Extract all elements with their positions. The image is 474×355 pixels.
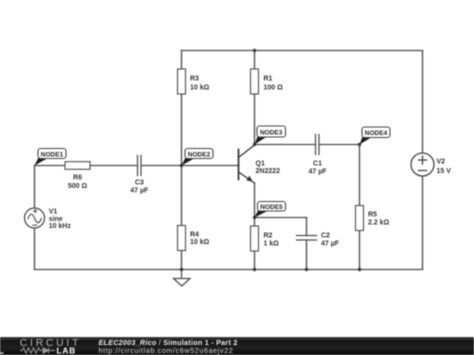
node NODE5 flag pointer: [255, 210, 268, 218]
svg-text:15 V: 15 V: [437, 168, 452, 175]
svg-text:NODE1: NODE1: [41, 152, 64, 159]
wire NODE4 down to R5: [359, 145, 361, 206]
svg-text:V1: V1: [49, 209, 58, 216]
junction dot top rail R1: [253, 49, 256, 52]
resistor R1 value label: [264, 76, 284, 92]
svg-text:500 Ω: 500 Ω: [68, 183, 88, 190]
svg-text:R2: R2: [264, 233, 273, 240]
capacitor C2 plates: [297, 236, 317, 241]
svg-text:1 kΩ: 1 kΩ: [264, 241, 280, 248]
wire R2 top stub: [254, 218, 256, 227]
wire input row: R6 to C3: [90, 165, 138, 167]
svg-text:R1: R1: [264, 76, 273, 83]
svg-text:NODE5: NODE5: [260, 204, 283, 211]
junction dot NODE5: [253, 216, 256, 219]
source V2 label: [437, 159, 452, 176]
source V2: [411, 153, 434, 176]
wire R1 top stub: [254, 51, 256, 70]
svg-text:R5: R5: [368, 212, 377, 219]
resistor R5 body: [356, 206, 364, 231]
svg-text:R4: R4: [190, 232, 199, 239]
footer bar: [0, 337, 474, 355]
resistor R2 body: [251, 226, 259, 251]
junction dot NODE2: [180, 164, 183, 167]
source V1: [25, 208, 45, 228]
node NODE3 box: [257, 126, 286, 137]
wire NODE2 to R4: [181, 166, 183, 226]
resistor R3 value label: [190, 76, 210, 92]
wire input row: C3 to NODE2: [141, 165, 182, 167]
svg-text:C1: C1: [313, 161, 322, 168]
svg-text:47 µF: 47 µF: [321, 241, 340, 248]
wire emitter row: NODE5 to C2: [255, 217, 307, 219]
wire R2 bottom to bottom rail: [254, 251, 256, 270]
resistor R6 value label: [68, 175, 88, 191]
title text: [99, 339, 238, 346]
svg-text:10 kΩ: 10 kΩ: [190, 85, 210, 92]
svg-text:R6: R6: [73, 175, 82, 182]
capacitor C3 value label: [130, 180, 149, 195]
node NODE4 flag pointer: [360, 136, 373, 145]
wire collector row: NODE3 to C1: [255, 144, 316, 146]
svg-text:10 kHz: 10 kHz: [49, 223, 72, 230]
wire R3 bottom to NODE2: [181, 94, 183, 166]
wire C2 bottom to bottom rail: [306, 240, 308, 270]
resistor R2 value label: [264, 233, 280, 248]
wire C2 top stub: [306, 218, 308, 236]
CircuitLab logo: [0, 330, 100, 355]
capacitor C2 value label: [321, 233, 340, 248]
wire V2 branch lower: [422, 176, 424, 270]
svg-text:NODE3: NODE3: [260, 130, 283, 137]
url text: [99, 347, 234, 354]
ground: [174, 270, 191, 287]
junction dot NODE4: [358, 143, 361, 146]
resistor R6 body: [65, 162, 90, 170]
node NODE4 box: [362, 127, 390, 138]
source V1 label: [49, 209, 72, 231]
wire left vertical (V1 branch upper): [34, 166, 36, 209]
resistor R4 body: [178, 226, 186, 251]
wire V2 branch upper: [422, 51, 424, 154]
svg-text:LAB: LAB: [57, 347, 77, 355]
svg-text:C2: C2: [321, 233, 330, 240]
svg-text:47 µF: 47 µF: [130, 188, 149, 195]
junction dot NODE3: [253, 143, 256, 146]
wire input row: node1 to R6: [35, 165, 66, 167]
transistor Q1: [239, 145, 255, 184]
svg-text:2.2 kΩ: 2.2 kΩ: [368, 220, 390, 227]
junction dot ground rail R4: [180, 268, 183, 271]
svg-text:R3: R3: [190, 76, 199, 83]
svg-text:10 kΩ: 10 kΩ: [190, 239, 210, 246]
svg-text:V2: V2: [437, 159, 446, 166]
capacitor C3 plates: [138, 156, 142, 176]
wire R5 bottom to bottom rail: [359, 231, 361, 270]
svg-text:47 µF: 47 µF: [308, 169, 327, 176]
svg-text:C3: C3: [135, 180, 144, 187]
wire R4 bottom to ground rail: [181, 251, 183, 270]
svg-text:NODE2: NODE2: [188, 152, 211, 159]
resistor R5 value label: [368, 212, 390, 227]
node NODE2 flag pointer: [182, 157, 196, 166]
wire R3 top stub: [181, 51, 183, 70]
svg-text:NODE4: NODE4: [365, 130, 388, 137]
node NODE2 box: [185, 149, 213, 159]
capacitor C1 value label: [308, 161, 327, 176]
capacitor C1 plates: [316, 135, 320, 155]
wire left vertical (V1 branch lower): [34, 228, 36, 270]
node NODE3 flag pointer: [255, 135, 268, 145]
wire collector row: C1 to NODE4: [319, 144, 360, 146]
resistor R4 value label: [190, 232, 210, 247]
wire emitter down to NODE5: [254, 183, 256, 218]
resistor R3 body: [178, 69, 186, 94]
svg-text:sine: sine: [49, 216, 63, 223]
transistor Q1 emitter arrow: [246, 176, 253, 182]
node NODE1 flag pointer: [35, 157, 49, 166]
junction dot bottom rail R5: [358, 268, 361, 271]
node NODE5 box: [258, 202, 286, 212]
junction dot bottom rail C2: [305, 268, 308, 271]
node NODE1 box: [38, 149, 66, 159]
transistor Q1 label: [256, 161, 281, 176]
wire top rail: [182, 50, 423, 52]
wire bottom rail: [35, 269, 423, 271]
svg-text:2N2222: 2N2222: [256, 168, 281, 175]
svg-text:100 Ω: 100 Ω: [264, 85, 284, 92]
wire base: NODE2 to Q1 base: [182, 165, 239, 167]
wire R1 bottom to collector node: [254, 94, 256, 145]
svg-text:Q1: Q1: [256, 161, 265, 168]
resistor R1 body: [251, 69, 259, 94]
junction dot bottom rail R2: [253, 268, 256, 271]
white corner mark: [0, 352, 4, 354]
